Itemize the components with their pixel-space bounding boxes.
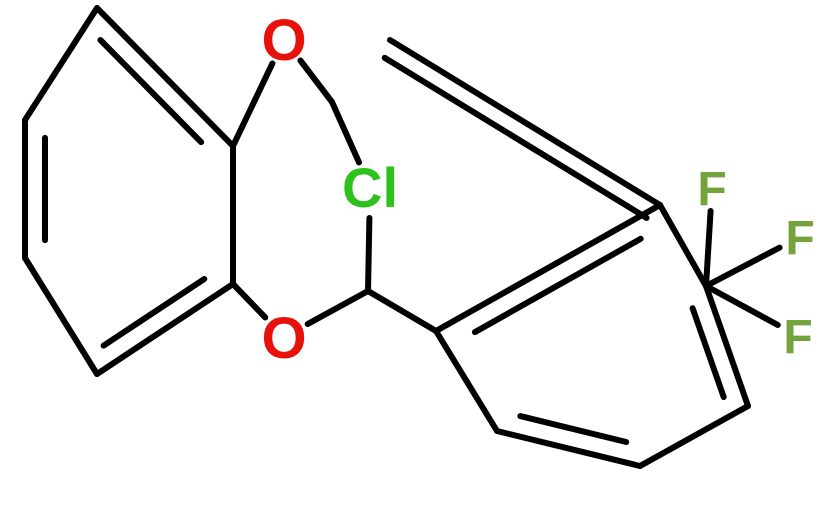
left benzene ring edge C1a-C2a (top-left)	[25, 8, 97, 120]
bond ring1 C6a to ether O1	[233, 63, 272, 146]
bond O1 to carbon C1	[300, 61, 332, 103]
bond V to right ring vertex W	[368, 291, 436, 331]
right benzene ring edge B-Z (bottom)	[497, 431, 640, 466]
bond ring1 C5a to ether O2	[233, 284, 265, 318]
svg-text:Cl: Cl	[342, 156, 398, 219]
bond V to Cl (vertical)	[368, 218, 369, 291]
svg-text:O: O	[261, 306, 306, 371]
bond CF3 carbon X to F1	[706, 211, 711, 286]
right benzene ring edge Z-W (bottom-left)	[436, 331, 497, 431]
bond O2 to carbon V	[308, 291, 368, 324]
left benzene ring edge C2a-C3a (left, vertical)	[22, 120, 28, 258]
left ring aromatic inner line, top-right edge	[100, 40, 201, 142]
left ring aromatic inner line, bottom-right edge	[104, 279, 205, 346]
right ring aromatic inner line, bottom edge	[520, 416, 626, 442]
right ring aromatic inner line, top-left edge	[475, 239, 641, 332]
bond C1 to Cl	[332, 102, 359, 162]
svg-text:F: F	[783, 311, 812, 364]
bond CF3 carbon X to F3	[706, 286, 778, 325]
long double-bond line G-T, second parallel	[385, 58, 647, 218]
right benzene ring edge Y-B (bottom-right)	[640, 406, 748, 466]
left benzene ring edge C5a-C6a (right, vertical)	[230, 146, 236, 284]
right benzene ring edge T-X (top-right)	[660, 205, 706, 286]
svg-text:F: F	[697, 163, 726, 216]
right benzene ring edge W-T (long top-left)	[436, 205, 660, 331]
svg-text:O: O	[261, 8, 306, 73]
right ring aromatic inner line, right edge	[693, 308, 724, 397]
svg-text:F: F	[785, 212, 814, 265]
right benzene ring edge X-Y (right)	[706, 286, 748, 406]
left benzene ring edge C4a-C5a (bottom-right)	[97, 284, 233, 374]
left ring aromatic inner line, left edge	[42, 138, 48, 240]
long double-bond line G-T, main	[390, 40, 660, 205]
bond CF3 carbon X to F2	[706, 248, 780, 286]
left benzene ring edge C3a-C4a (bottom-left)	[25, 258, 97, 374]
left benzene ring edge C6a-C1a (top-right)	[97, 8, 233, 146]
